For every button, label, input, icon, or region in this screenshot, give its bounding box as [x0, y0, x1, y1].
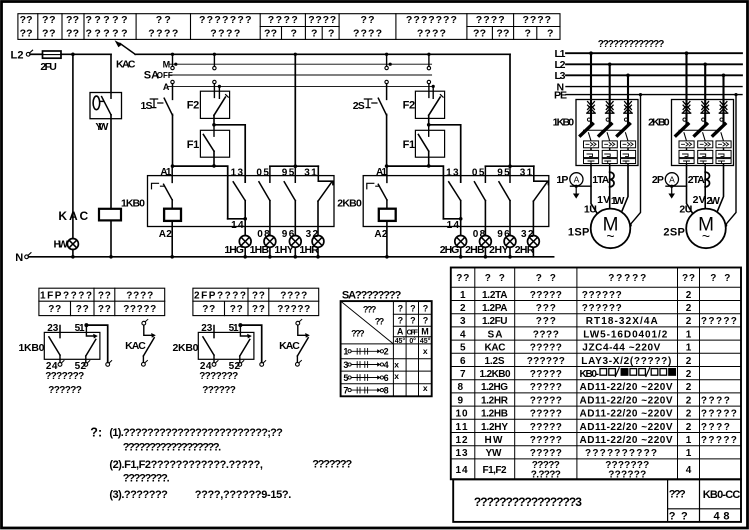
svg-text:KAC: KAC [116, 58, 136, 70]
part 7 spec KB0 boxes [580, 368, 676, 380]
svg-text:1V: 1V [597, 194, 610, 206]
svg-text:2W: 2W [706, 195, 720, 207]
svg-text:2TA: 2TA [688, 174, 705, 186]
svg-text:51: 51 [229, 323, 239, 334]
svg-text:F1: F1 [187, 139, 200, 151]
title block [453, 479, 741, 522]
lamp 2HR [515, 236, 540, 257]
lamp HW [54, 239, 79, 251]
svg-text:(2).F1,F2????????????.?????,: (2).F1,F2????????????.?????, [109, 459, 263, 471]
lamp 1HG [224, 236, 251, 257]
svg-text:2KB0: 2KB0 [337, 197, 362, 209]
svg-text:A1: A1 [160, 167, 171, 178]
svg-text:???: ??? [363, 304, 377, 314]
node HW tap [71, 53, 75, 57]
svg-text:31: 31 [520, 168, 533, 179]
svg-text:YW: YW [95, 121, 108, 133]
svg-text:F1,F2: F1,F2 [483, 465, 507, 476]
title strip table [18, 14, 560, 40]
wire F2-2 feeds [429, 84, 433, 99]
svg-text:?:: ?: [90, 426, 102, 440]
svg-text:1.2TA: 1.2TA [482, 290, 508, 301]
svg-text:51: 51 [75, 323, 85, 334]
svg-text:??: ?? [42, 14, 56, 26]
svg-text:95: 95 [497, 168, 510, 179]
svg-text:????: ???? [148, 28, 178, 40]
svg-text:??: ?? [66, 14, 79, 26]
svg-text:?????: ????? [530, 343, 562, 354]
svg-text:M: M [421, 327, 429, 337]
svg-text:??: ?? [375, 316, 385, 326]
svg-text:??: ?? [473, 28, 486, 40]
node M line 1 [174, 63, 177, 66]
svg-text:7: 7 [460, 369, 466, 380]
svg-text:A: A [669, 174, 675, 184]
thermal element F2-1 [187, 91, 230, 125]
svg-text:1FP????: 1FP???? [40, 291, 92, 302]
aux contact KAC left [125, 319, 156, 366]
svg-text:?: ? [398, 303, 404, 313]
svg-text:1: 1 [460, 290, 466, 301]
contact 05-08 branch1 [256, 168, 270, 241]
node A line 2 [432, 85, 435, 88]
node L1 tap unit2 [685, 51, 689, 55]
svg-text:2HR: 2HR [515, 244, 535, 256]
breaker unit 1KB0 [553, 53, 638, 165]
node M line 2 [389, 63, 392, 66]
svg-text:SA: SA [488, 329, 503, 340]
svg-text:????: ???? [280, 291, 307, 302]
svg-text:2FP????: 2FP???? [194, 291, 246, 302]
svg-text:~: ~ [606, 228, 614, 244]
svg-text:4: 4 [384, 360, 389, 370]
svg-text:? ?: ? ? [669, 510, 688, 522]
wire KAC coil to N [110, 220, 112, 256]
svg-text:14: 14 [456, 465, 468, 476]
contactor 2KB0 box [337, 167, 549, 240]
svg-text:1KB0: 1KB0 [553, 116, 575, 128]
svg-text:x: x [394, 359, 399, 369]
svg-text:1KB0: 1KB0 [121, 197, 145, 209]
svg-text:AD11-22/20 ~220V: AD11-22/20 ~220V [580, 409, 673, 420]
svg-text:??????: ?????? [48, 385, 82, 396]
svg-text:?????: ????? [530, 395, 562, 406]
net PE [554, 90, 742, 102]
wire 14 jog branch2 [443, 218, 460, 220]
svg-text:1.2HR: 1.2HR [481, 395, 509, 406]
terminal L2 [11, 50, 33, 62]
svg-text:6: 6 [384, 373, 389, 383]
node 1KB0 feed [294, 53, 297, 56]
svg-text:9: 9 [458, 395, 464, 406]
svg-text:AD11-22/20 ~220V: AD11-22/20 ~220V [580, 395, 673, 406]
svg-text:????: ???? [523, 14, 552, 26]
node 14 branch2 [459, 217, 463, 221]
svg-text:?: ? [525, 28, 531, 40]
svg-text:KAC: KAC [125, 340, 146, 352]
svg-text:?????: ????? [701, 409, 737, 420]
svg-text:2: 2 [686, 303, 692, 314]
net L2 [555, 59, 743, 71]
svg-text:2HB: 2HB [465, 244, 485, 256]
svg-text:??: ?? [496, 28, 509, 40]
lamp 2HG [440, 236, 467, 257]
svg-text:?????: ????? [530, 382, 562, 393]
svg-text:??????????????????.: ??????????????????. [123, 441, 222, 453]
fuse 2FU [30, 51, 61, 73]
motor 1SP [568, 209, 630, 249]
svg-text:??: ?? [456, 273, 469, 284]
svg-text:??: ?? [66, 28, 79, 40]
svg-text:????: ???? [353, 28, 382, 40]
svg-text:???: ??? [351, 328, 365, 338]
svg-text:13: 13 [446, 168, 459, 179]
node A1 branch1 [212, 164, 216, 168]
svg-text:2HY: 2HY [489, 244, 509, 256]
lamp 1HY [274, 236, 301, 257]
pushbutton 2S [353, 84, 387, 166]
wire 2KB0 aux bus [485, 54, 548, 184]
svg-text:A: A [163, 82, 170, 92]
svg-text:????: ???? [308, 14, 336, 26]
svg-text:A2: A2 [374, 229, 387, 240]
contact 13-14 branch1 [231, 168, 246, 236]
svg-text:???: ??? [536, 316, 556, 327]
svg-text:AD11-22/20 ~220V: AD11-22/20 ~220V [580, 435, 673, 446]
svg-text:?????: ????? [530, 369, 562, 380]
svg-text:???: ??? [536, 303, 556, 314]
svg-text:??: ?? [20, 28, 33, 40]
svg-text:1HB: 1HB [250, 244, 270, 256]
svg-text:1U: 1U [584, 203, 597, 215]
svg-text:2U: 2U [679, 203, 692, 215]
svg-text:M: M [163, 60, 171, 70]
net N [557, 81, 743, 93]
svg-text:?: ? [328, 28, 334, 40]
svg-text:1.2HB: 1.2HB [481, 409, 508, 420]
net L1 [555, 48, 743, 60]
wire SA line M [169, 63, 432, 65]
svg-text:?????: ????? [86, 14, 128, 26]
svg-text:?: ? [410, 303, 416, 313]
ammeter 1PA [556, 173, 591, 199]
svg-text:????: ???? [701, 422, 730, 433]
svg-text:LAY3-X/2(?????): LAY3-X/2(?????) [581, 356, 671, 367]
wire PE to motor2 [724, 93, 738, 227]
svg-text:2S: 2S [353, 100, 365, 112]
parts list rows [456, 290, 737, 481]
svg-text:1: 1 [686, 343, 692, 354]
svg-text:5: 5 [460, 343, 466, 354]
wire HW branch [72, 54, 74, 256]
svg-text:OFF: OFF [157, 71, 173, 80]
svg-text:05: 05 [472, 168, 485, 179]
svg-text:2V: 2V [693, 194, 706, 206]
svg-text:??????: ?????? [527, 356, 565, 367]
node L2 tap unit2 [703, 63, 707, 67]
node F2-2 out [427, 123, 431, 127]
svg-text:1: 1 [686, 435, 692, 446]
wire 14 jog branch1 [228, 218, 246, 220]
svg-text:???????: ??????? [199, 371, 238, 382]
svg-text:1TA: 1TA [592, 174, 609, 186]
svg-text:?????: ????? [530, 409, 562, 420]
selector table SA [341, 290, 432, 397]
svg-text:1HY: 1HY [274, 244, 294, 256]
title strip texts row1 [20, 14, 551, 26]
svg-text:????: ???? [126, 291, 153, 302]
svg-text:?????: ????? [86, 28, 128, 40]
svg-text:???????: ??????? [312, 459, 352, 471]
svg-text:1.2FU: 1.2FU [482, 316, 508, 327]
float switch YW [90, 93, 122, 134]
svg-text:?????: ????? [530, 422, 562, 433]
svg-text:8: 8 [458, 382, 464, 393]
svg-text:????: ???? [701, 395, 730, 406]
node SA stub 2 [213, 53, 216, 56]
node SA stub 1 [171, 53, 174, 56]
svg-text:L2: L2 [11, 50, 24, 62]
svg-text:??????: ?????? [202, 385, 236, 396]
svg-text:????: ???? [268, 14, 298, 26]
svg-text:F2: F2 [187, 100, 200, 112]
svg-text:?????: ????? [701, 316, 737, 327]
parts list header texts [456, 273, 730, 284]
svg-text:N: N [15, 252, 23, 264]
svg-text:?: ? [311, 28, 317, 40]
node N junctions [71, 255, 512, 259]
selector switch SA contacts [171, 54, 431, 83]
svg-text:05: 05 [256, 168, 269, 179]
label SA positions [144, 60, 173, 92]
svg-text:x: x [423, 383, 428, 393]
svg-text:?: ? [398, 316, 404, 326]
svg-text:2HG: 2HG [440, 244, 460, 256]
svg-text:?: ? [291, 28, 297, 40]
svg-text:?????: ????? [530, 435, 562, 446]
svg-text:??: ?? [264, 28, 277, 40]
svg-text:A: A [574, 174, 580, 184]
lamp 1HB [250, 236, 276, 257]
aux contact block 1KB0 [19, 323, 112, 396]
lamp 2HY [489, 236, 516, 257]
svg-text:???????: ??????? [45, 371, 84, 382]
wire A1 line branch2 [387, 166, 444, 219]
svg-text:x: x [394, 371, 399, 381]
svg-text:95: 95 [282, 168, 295, 179]
svg-text:? ?: ? ? [536, 273, 556, 284]
svg-text:23: 23 [47, 323, 58, 334]
node L2 tap unit1 [608, 63, 612, 67]
current transformer 2TA [688, 172, 710, 187]
svg-text:????: ???? [533, 329, 559, 340]
svg-text:2: 2 [686, 422, 692, 433]
current transformer 1TA [592, 172, 614, 187]
svg-text:AD11-22/20 ~220V: AD11-22/20 ~220V [580, 382, 673, 393]
svg-text:RT18-32X/4A: RT18-32X/4A [586, 316, 658, 327]
svg-text:1: 1 [686, 329, 692, 340]
node L3 tap unit2 [722, 74, 726, 78]
svg-text:32: 32 [306, 229, 319, 240]
svg-text:2: 2 [384, 347, 389, 357]
thermal element F1-2 [403, 125, 445, 166]
svg-text:~: ~ [702, 228, 710, 244]
node F2-1 out [212, 123, 216, 127]
svg-text:?: ? [547, 28, 553, 40]
svg-text:08: 08 [257, 229, 270, 240]
contact 05-08 branch2 [472, 168, 486, 241]
panel table 1FP [39, 288, 165, 315]
node 14 branch1 [243, 217, 247, 221]
svg-text:2: 2 [686, 316, 692, 327]
thermal element F2-2 [403, 91, 445, 125]
breaker unit 2KB0 [648, 53, 733, 165]
wire unit1 to motor [584, 166, 628, 216]
svg-text:A: A [397, 327, 404, 337]
wire 1KB0 aux bus [270, 54, 333, 184]
net L3 [555, 70, 743, 82]
svg-text:HW: HW [54, 239, 69, 251]
svg-text:?????: ????? [530, 290, 562, 301]
svg-text:????: ???? [417, 28, 446, 40]
node A line 1 [218, 85, 221, 88]
svg-text:KB0-CC: KB0-CC [703, 489, 741, 501]
wire SA line OFF [169, 74, 432, 76]
svg-text:14: 14 [231, 220, 244, 231]
title strip texts row2 [20, 28, 554, 40]
wire SA line A [168, 85, 434, 87]
svg-text:1W: 1W [611, 195, 625, 207]
svg-text:????: ???? [476, 14, 505, 26]
svg-text:??: ?? [76, 304, 89, 315]
svg-text:0°: 0° [409, 337, 416, 345]
node SA stub 3 [385, 53, 388, 56]
parts list table [451, 268, 741, 480]
svg-text:A2: A2 [159, 229, 172, 240]
svg-text:????,??????9-15?.: ????,??????9-15?. [195, 489, 291, 501]
svg-text:2: 2 [686, 290, 692, 301]
svg-text:??: ?? [682, 273, 695, 284]
svg-text:2: 2 [686, 356, 692, 367]
ammeter 2PA [652, 173, 687, 199]
terminal N [15, 252, 31, 264]
contact 13-14 branch2 [446, 168, 461, 236]
svg-text:??: ?? [42, 28, 56, 40]
svg-text:(3).???????: (3).??????? [109, 489, 168, 501]
aux contact block 2KB0 [173, 323, 266, 396]
svg-text:HW: HW [485, 435, 504, 446]
svg-text:??: ?? [252, 304, 265, 315]
wire A1 line branch1 [173, 166, 228, 219]
wire PE to motor1 [628, 93, 642, 227]
svg-text:1SP: 1SP [568, 226, 590, 238]
svg-text:??: ?? [98, 291, 111, 302]
svg-text:????: ???? [210, 28, 240, 40]
svg-text:??: ?? [230, 304, 243, 315]
notes text [90, 426, 352, 502]
svg-text:2: 2 [686, 369, 692, 380]
switch contact KAC main [115, 40, 136, 70]
contact 95-96 branch2 [497, 168, 510, 241]
pushbutton 1S [141, 84, 173, 166]
svg-text:2KB0: 2KB0 [173, 342, 199, 354]
svg-text:2P: 2P [652, 174, 664, 186]
panel table 2FP [193, 288, 319, 315]
svg-text:1: 1 [686, 448, 692, 459]
svg-text:KAC: KAC [485, 343, 506, 354]
svg-text:??: ?? [48, 304, 61, 315]
svg-text:YW: YW [486, 448, 503, 459]
svg-text:?????: ????? [530, 448, 562, 459]
contactor 1KB0 box [121, 167, 334, 240]
aux contact KAC right [279, 319, 310, 366]
svg-text:??: ?? [252, 291, 265, 302]
svg-text:OFF: OFF [407, 328, 419, 337]
svg-text:x: x [423, 346, 428, 356]
svg-text:13: 13 [456, 448, 468, 459]
lamp 2HB [465, 236, 491, 257]
svg-text:1HG: 1HG [224, 244, 244, 256]
svg-text:??: ?? [98, 304, 111, 315]
svg-text:F2: F2 [403, 100, 416, 112]
svg-text:?????: ????? [123, 304, 156, 315]
wire unit2 to motor [679, 166, 723, 216]
wire 13 feed branch1 [214, 125, 245, 182]
node L1 tap unit1 [589, 51, 593, 55]
svg-text:2: 2 [686, 395, 692, 406]
svg-text:KAC: KAC [279, 340, 300, 352]
svg-text:14: 14 [447, 220, 460, 231]
svg-text:???????: ??????? [199, 14, 252, 26]
svg-text:1P: 1P [556, 174, 568, 186]
svg-text:??: ?? [361, 14, 375, 26]
wire 13 feed branch2 [429, 125, 461, 182]
wire fuse to KAC switch [61, 53, 111, 55]
thermal element F1-1 [187, 125, 230, 166]
svg-text:8: 8 [384, 385, 389, 395]
svg-text:??: ?? [202, 304, 215, 315]
svg-text:?: ? [423, 303, 429, 313]
svg-text:1KB0: 1KB0 [19, 342, 45, 354]
svg-text:(1).????????????????????????;?: (1).????????????????????????;?? [109, 427, 283, 439]
node A1 branch2 [427, 164, 431, 168]
contact 31-32 branch2 [520, 168, 547, 240]
svg-text:?: ? [410, 316, 416, 326]
svg-text:??????: ?????? [582, 290, 622, 301]
svg-text:1.2S: 1.2S [485, 356, 505, 367]
svg-text:????????.: ????????. [123, 472, 170, 484]
node L3 tap unit1 [626, 74, 630, 78]
svg-text:1.2HY: 1.2HY [481, 422, 508, 433]
svg-text:LW5-16D0401/2: LW5-16D0401/2 [583, 329, 667, 340]
svg-text:AD11-22/20 ~220V: AD11-22/20 ~220V [580, 422, 673, 433]
svg-text:2KB0: 2KB0 [648, 116, 670, 128]
svg-text:?????: ????? [608, 273, 646, 284]
svg-text:1S: 1S [141, 100, 153, 112]
svg-text:2: 2 [686, 382, 692, 393]
svg-text:A1: A1 [376, 167, 387, 178]
svg-text:PE: PE [554, 90, 567, 102]
svg-text:?????: ????? [277, 304, 310, 315]
relay coil KAC [58, 209, 121, 223]
svg-text:32: 32 [521, 229, 534, 240]
svg-text:1.2PA: 1.2PA [482, 303, 508, 314]
svg-text:45°: 45° [395, 337, 406, 345]
wire N line [29, 256, 554, 258]
svg-text:JZC4-44 ~220V: JZC4-44 ~220V [582, 343, 660, 354]
svg-text:23: 23 [201, 323, 212, 334]
svg-text:?: ? [423, 316, 429, 326]
